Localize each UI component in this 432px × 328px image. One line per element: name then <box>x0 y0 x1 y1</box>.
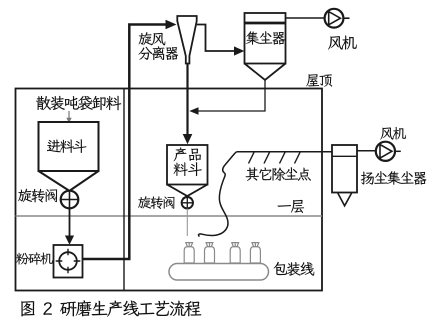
suction header line to collector <box>237 151 332 153</box>
label 进料斗 feed hopper <box>47 139 87 153</box>
cyclone separator 旋风分离器 <box>177 16 196 64</box>
dust collector 扬尘集尘器 body <box>332 145 357 193</box>
crusher 粉碎机 box <box>54 245 83 278</box>
fan F1 circle <box>325 9 344 28</box>
rotary valve V1 cross <box>61 191 79 209</box>
vessel internal line <box>332 155 357 157</box>
label 扬尘集尘器 dust collector right <box>361 171 427 185</box>
product hopper 产品料斗 box <box>167 145 208 185</box>
dust return line to stem <box>199 80 266 111</box>
floor line 一层 <box>16 215 323 217</box>
product hopper cone left line <box>167 185 192 199</box>
label xuanfeng line2 分离器 <box>138 46 178 60</box>
flexible dust suction duct (wavy) <box>198 152 236 237</box>
duct from crusher up to cyclone <box>83 25 168 260</box>
label 料斗 product line2 <box>174 162 202 176</box>
bottle 2 on conveyor <box>205 243 215 263</box>
bottle 3 on conveyor <box>230 243 240 263</box>
branch tick 4 <box>295 152 301 163</box>
rotary valve V1 circle <box>61 191 79 209</box>
line vessel to fan F2 <box>357 150 376 152</box>
line dust collector to fan <box>286 17 325 19</box>
rotary valve V2 circle <box>182 197 193 208</box>
label 散装吨袋卸料 bulk bag unloading <box>36 96 121 111</box>
interior wall divider <box>123 89 125 291</box>
fan F2 triangle <box>380 145 392 159</box>
label 风机 fan top <box>328 36 357 50</box>
drop line valve to crusher <box>69 208 71 237</box>
label 集尘器 dust collector <box>246 31 285 45</box>
fan F1 outlet stub <box>343 17 349 19</box>
crusher rotor circle <box>59 252 77 270</box>
feed hopper 进料斗 box <box>39 122 99 171</box>
crusher tick marks <box>56 249 81 274</box>
arrowhead into product hopper <box>183 134 193 144</box>
branch tick 2 <box>264 152 270 163</box>
vessel cone <box>338 193 352 206</box>
packaging conveyor belt <box>169 264 269 281</box>
label 屋顶 roof <box>306 74 332 87</box>
gray arrow bag unloading into feed hopper <box>68 111 70 119</box>
dust collector tube sheet bar <box>245 22 286 25</box>
label 风机 fan right <box>380 127 406 140</box>
feed hopper cone right line <box>66 171 99 194</box>
label 产品 product line1 <box>174 148 201 162</box>
gray drop line to packing <box>186 209 188 237</box>
branch tick 1 <box>249 152 255 163</box>
cyclone underflow stem <box>186 64 188 136</box>
bottle 4 on conveyor <box>250 243 260 263</box>
dust collector 集尘器 body <box>245 13 286 64</box>
feed hopper cone left line <box>39 171 74 194</box>
branch tick 3 <box>280 152 286 163</box>
label 粉碎机 crusher <box>16 252 53 264</box>
label 一层 first floor <box>278 200 305 213</box>
duct cyclone to dust collector <box>197 25 235 52</box>
label 旋转阀 rotary valve left <box>18 189 57 203</box>
caption 图2 研磨生产线工艺流程 <box>21 300 201 316</box>
label 其它除尘点 other dust points <box>246 167 311 181</box>
fan F1 triangle <box>329 12 341 25</box>
product hopper cone right line <box>183 185 208 199</box>
dust collector hopper cone <box>245 64 286 81</box>
fan F2 circle <box>376 142 395 161</box>
building outline (roof 屋顶 line, walls, floor) <box>16 89 323 291</box>
arrowhead into dust collector <box>234 46 244 55</box>
rotary valve V2 cross <box>182 197 193 208</box>
label 包装线 packaging line <box>274 262 315 276</box>
arrowhead into cyclone <box>166 20 177 29</box>
fan F2 outlet stub <box>395 150 401 152</box>
arrowhead into crusher <box>65 236 74 245</box>
label xuanfeng line1 旋风 <box>139 32 166 45</box>
label 旋转阀 rotary valve right <box>138 196 174 209</box>
bottle 1 on conveyor <box>184 243 194 263</box>
arrowhead left into stem <box>189 107 198 115</box>
